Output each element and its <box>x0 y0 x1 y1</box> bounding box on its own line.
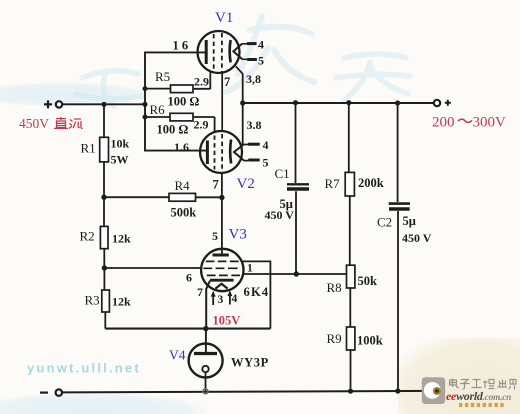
resistor R7 <box>325 103 384 266</box>
terminal + input left <box>44 100 62 108</box>
svg-text:C2: C2 <box>377 215 392 230</box>
svg-text:2.9: 2.9 <box>194 75 209 89</box>
svg-text:7: 7 <box>224 75 230 89</box>
node V4 bottom <box>203 389 208 394</box>
eeworld url <box>446 389 511 403</box>
svg-text:R9: R9 <box>327 331 342 346</box>
svg-text:4: 4 <box>232 293 238 305</box>
svg-text:6: 6 <box>186 271 192 285</box>
wire bottom rail <box>62 391 435 393</box>
svg-text:450 V: 450 V <box>265 208 295 222</box>
node R6 left <box>143 115 148 120</box>
V4 cathode lead <box>205 372 207 391</box>
V2 grid 1 <box>214 136 216 170</box>
svg-text:200: 200 <box>432 114 455 130</box>
V3 grid1 <box>207 274 240 276</box>
svg-text:5W: 5W <box>111 152 129 166</box>
capacitor C1 <box>265 103 310 274</box>
svg-text:450V: 450V <box>19 116 49 131</box>
wire V3 screen to R8 <box>243 273 346 275</box>
svg-text:100k: 100k <box>357 334 383 348</box>
svg-text:V4: V4 <box>169 347 186 362</box>
V3 grid2 <box>203 267 237 269</box>
eeworld chinese title <box>450 379 517 390</box>
V4 cathode <box>202 366 208 372</box>
V2 cathode bar <box>206 141 209 165</box>
svg-text:1: 1 <box>247 263 253 275</box>
node R5 left <box>143 86 148 91</box>
svg-text:1.6: 1.6 <box>174 140 189 154</box>
svg-text:7: 7 <box>197 285 203 299</box>
node C1 top <box>293 100 298 105</box>
svg-text:V1: V1 <box>215 10 233 26</box>
node R1 top <box>101 102 106 107</box>
node C2 top <box>395 100 400 105</box>
V1 pin4 lead <box>242 43 257 45</box>
svg-text:R6: R6 <box>150 102 166 117</box>
svg-text:4: 4 <box>258 38 264 52</box>
wire V3 pin1 loop <box>242 261 271 328</box>
V1 plate wedge <box>233 44 242 60</box>
svg-text:5: 5 <box>263 156 269 170</box>
svg-text:R4: R4 <box>175 178 191 193</box>
svg-text:200k: 200k <box>358 176 384 190</box>
V4 anode lead <box>205 329 207 352</box>
svg-text:R8: R8 <box>327 280 342 295</box>
node V4 top <box>203 326 208 331</box>
node C1 bottom <box>294 271 299 276</box>
svg-text:3,8: 3,8 <box>246 72 261 86</box>
V3 grid3 <box>206 260 239 262</box>
svg-text:WY3P: WY3P <box>231 356 269 370</box>
svg-text:R2: R2 <box>80 229 95 244</box>
svg-text:5: 5 <box>258 54 264 68</box>
svg-text:5μ: 5μ <box>403 214 416 228</box>
terminal - bottom left <box>40 389 62 395</box>
tube V2 <box>174 131 269 192</box>
wire top rail right <box>243 102 434 104</box>
tube V3 <box>197 227 269 307</box>
node R7 top <box>346 100 351 105</box>
resistor R9 <box>327 327 383 391</box>
node R4 right <box>219 195 224 200</box>
node C2 bottom <box>395 388 400 393</box>
node R9 bottom <box>348 389 353 394</box>
tube V1 <box>173 10 265 89</box>
svg-text:6K4: 6K4 <box>244 285 270 299</box>
V1 plate <box>228 40 232 62</box>
wire V3 plate feed <box>221 198 223 255</box>
label 200~300V <box>432 114 506 130</box>
wire top-left rail <box>62 103 145 105</box>
svg-text:V3: V3 <box>229 227 247 243</box>
eeworld logo mark <box>422 377 445 404</box>
svg-text:12k: 12k <box>112 295 131 309</box>
watermark band <box>0 16 410 414</box>
resistor R6 <box>145 102 215 136</box>
svg-text:R7: R7 <box>325 176 341 191</box>
svg-text:1 6: 1 6 <box>173 39 189 53</box>
V1 grid 1 <box>213 34 215 71</box>
svg-text:105V: 105V <box>213 314 241 328</box>
svg-text:300V: 300V <box>473 114 507 130</box>
wire V3 cathode down <box>206 281 210 329</box>
node R2-R3 junction <box>102 265 107 270</box>
svg-text:V2: V2 <box>237 176 255 192</box>
svg-text:10k: 10k <box>111 137 130 151</box>
V1 grid 2 <box>221 33 223 72</box>
V3 plate bar <box>213 254 229 257</box>
wire V2 anode from rail <box>242 103 244 145</box>
node anode rail <box>240 100 245 105</box>
resistor R4 <box>104 178 222 220</box>
svg-text:3: 3 <box>218 294 224 306</box>
resistor R5 <box>145 69 210 109</box>
wire V1 grid to V2 <box>221 73 223 132</box>
V3 pin3 heater lead <box>212 296 214 305</box>
svg-text:7: 7 <box>213 178 219 192</box>
node R4 left <box>101 195 106 200</box>
wire heater feeder vertical <box>145 52 207 150</box>
V3 heater <box>215 284 227 289</box>
svg-text:3.8: 3.8 <box>247 118 262 132</box>
V2 pin4 lead <box>244 143 260 145</box>
svg-text:yunwt.ulll.net: yunwt.ulll.net <box>27 361 141 376</box>
svg-text:100 Ω: 100 Ω <box>168 95 200 109</box>
V4 anode bar <box>194 352 217 355</box>
resistor R8 <box>327 265 378 327</box>
svg-text:R5: R5 <box>155 69 170 84</box>
capacitor C2 <box>377 103 432 391</box>
svg-text:R3: R3 <box>85 293 100 308</box>
tube V4 <box>169 329 269 392</box>
V3 pin4 heater lead <box>229 296 231 305</box>
V2 plate <box>229 140 233 164</box>
svg-text:100 Ω: 100 Ω <box>157 122 189 136</box>
V2 grid 2 <box>221 134 223 171</box>
V1 pin5 lead <box>242 58 256 60</box>
V1 cathode bar <box>205 40 208 64</box>
resistor R1 <box>81 104 130 197</box>
node feeder <box>143 102 148 107</box>
svg-text:5: 5 <box>212 229 218 243</box>
V2 plate wedge <box>234 145 244 161</box>
pale yellow logo band <box>398 338 520 414</box>
svg-text:450 V: 450 V <box>402 231 432 245</box>
resistor R2 <box>80 197 132 268</box>
V2 pin5 lead <box>244 159 260 161</box>
label 450V DC <box>19 116 83 131</box>
svg-text:500k: 500k <box>171 206 197 220</box>
wire junction to V3 grid <box>104 267 201 269</box>
wire cathode rail y328.5 <box>105 328 270 330</box>
resistor R3 <box>85 268 132 329</box>
svg-text:C1: C1 <box>275 166 290 181</box>
svg-text:2.9: 2.9 <box>194 118 209 132</box>
eeworld slogan <box>459 403 504 407</box>
terminal + output right <box>434 100 451 106</box>
svg-text:R1: R1 <box>81 141 96 156</box>
wire V2 cathode down <box>221 173 223 198</box>
svg-text:4: 4 <box>263 138 269 152</box>
wire V1 anode to rail <box>236 66 243 103</box>
svg-text:12k: 12k <box>112 232 131 246</box>
V3 cathode <box>210 279 234 282</box>
svg-text:50k: 50k <box>358 274 378 288</box>
